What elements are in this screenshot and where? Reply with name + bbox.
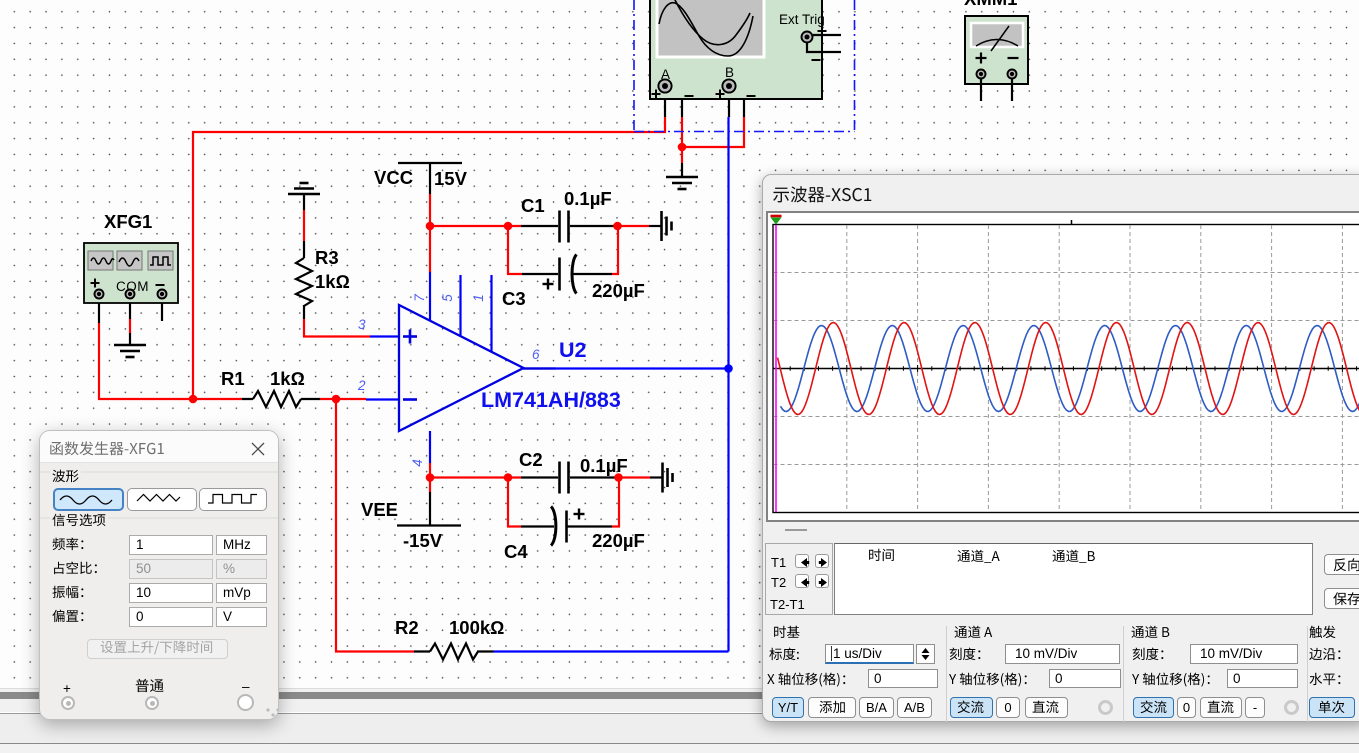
svg-text:2: 2 [357,378,366,393]
svg-text:R1: R1 [221,368,245,389]
svg-text:C4: C4 [504,541,528,562]
svg-text:-15V: -15V [403,530,443,551]
svg-text:220µF: 220µF [592,530,645,551]
svg-text:–: – [242,679,250,694]
svg-text:VCC: VCC [374,167,413,188]
svg-text:220µF: 220µF [592,280,645,301]
svg-text:R2: R2 [395,617,419,638]
svg-text:C1: C1 [521,195,545,216]
svg-text:VEE: VEE [361,499,398,520]
svg-text:C3: C3 [502,288,526,309]
svg-text:7: 7 [412,294,427,302]
svg-text:15V: 15V [434,168,468,189]
svg-text:4: 4 [410,459,425,467]
svg-text:XFG1: XFG1 [104,211,152,232]
svg-text:U2: U2 [559,338,587,362]
svg-text:LM741AH/883: LM741AH/883 [481,388,621,412]
svg-text:100kΩ: 100kΩ [449,617,504,638]
svg-text:1kΩ: 1kΩ [315,271,350,292]
svg-text:0.1µF: 0.1µF [580,455,628,476]
svg-text:3: 3 [358,317,366,332]
svg-text:0.1µF: 0.1µF [564,188,612,209]
svg-text:5: 5 [440,294,455,302]
svg-text:+: + [63,681,71,696]
svg-text:B: B [725,65,734,80]
svg-text:1kΩ: 1kΩ [270,368,305,389]
svg-text:Ext Trig: Ext Trig [779,12,825,27]
svg-text:C2: C2 [519,449,543,470]
svg-text:1: 1 [471,294,486,302]
svg-text:6: 6 [532,347,540,362]
svg-text:R3: R3 [315,247,339,268]
svg-text:XMM1: XMM1 [964,0,1017,9]
